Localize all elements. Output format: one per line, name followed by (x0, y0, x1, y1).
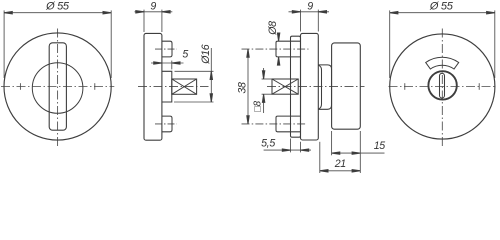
dimension O55 view4 extension left (389, 10, 391, 78)
svg-text:5: 5 (182, 49, 188, 61)
dimension 5 view2 extension right (171, 61, 173, 70)
centerline vertical view4 (441, 29, 443, 147)
spindle crossed box view3 (272, 79, 298, 94)
base plate side view3 (291, 36, 301, 137)
svg-text:9: 9 (150, 0, 156, 12)
dimension 5,5 view3 arrow left (282, 149, 290, 151)
dimension O8 view3 arrow top (277, 33, 279, 41)
dimension O16 view2 extension bottom (174, 101, 214, 103)
knob neck outline view3 (319, 65, 332, 109)
dimension 9 view2 extension right (161, 10, 163, 32)
dimension 5,5 view3 arrow right (301, 149, 309, 151)
dimension 15 view3 extension left (331, 131, 333, 155)
dimension 5,5 view3 extension right (300, 142, 302, 153)
dimension 5,5 view3 line (264, 149, 311, 151)
svg-text:Ø16: Ø16 (200, 44, 212, 65)
indicator arc segment view4 (426, 57, 459, 69)
dimension O16 view2 arrow top (210, 71, 212, 79)
centerline top boss view3 (242, 48, 309, 50)
coin slot view4 (440, 73, 445, 98)
dimension O55 view1 arrow right (103, 12, 111, 14)
spindle cross diagonals view2 (172, 79, 197, 94)
dimension 5 view2 arrow left (154, 62, 162, 64)
dimension O55 view1 extension left (3, 10, 5, 78)
dimension O55 view4 arrow right (487, 12, 495, 14)
dimension sq8 view3 arrow line bottom (263, 94, 265, 113)
centerline vertical view1 (57, 29, 59, 147)
svg-text:15: 15 (374, 140, 386, 152)
dimension O8 view3 arrow bottom (277, 57, 279, 65)
centerline tick right view1 (94, 83, 96, 90)
dimension O55 view4 arrow left (390, 12, 398, 14)
bottom screw tube view3 (276, 116, 301, 132)
knob body view3 (332, 43, 361, 129)
dimension 9 view2 extension left (143, 10, 145, 32)
rosette outer circle O55 view4 (390, 34, 495, 139)
centerline horizontal view4 (389, 86, 497, 88)
dimension 9 view3 extension left (300, 10, 302, 32)
svg-text:5,5: 5,5 (261, 138, 275, 150)
dimension O55 view4 extension right (494, 10, 496, 78)
dimension 15 view3 arrow left (332, 152, 340, 154)
svg-text:9: 9 (307, 0, 313, 12)
dimension 9 view3 arrow left (292, 11, 300, 13)
bottom screw boss view2 (162, 116, 172, 132)
centerline tick left view4 (404, 83, 406, 90)
release cylinder circle view4 (428, 71, 456, 99)
dimension 9 view3 arrow right (318, 11, 326, 13)
dimension O16 view2 arrow bottom (210, 94, 212, 102)
dimension sq8 view3 arrow top (262, 71, 264, 79)
dimension sq8 view3 extension bottom (262, 93, 272, 95)
svg-text:21: 21 (334, 158, 346, 170)
svg-text:□8: □8 (253, 100, 264, 112)
rosette disc side view2 (144, 33, 162, 140)
thumbturn bar view1 (49, 43, 66, 130)
dimension 21 view3 line (320, 170, 361, 172)
dimension O8 view3 leader bottom (278, 57, 280, 66)
dimension 21 view3 arrow left (320, 170, 328, 172)
dimension O55 view1 extension right (110, 10, 112, 78)
dimension 5,5 view3 extension left (290, 139, 292, 153)
dimension 9 view3 line (289, 11, 330, 13)
dimension sq8 view3 extension top (262, 78, 272, 80)
dimension 38 view3 line (247, 49, 249, 124)
dimension O55 view4 line (390, 12, 495, 14)
dimension 15 view3 arrow right (352, 152, 360, 154)
spindle cross diagonals view3 (272, 79, 298, 94)
centerline main view3 (267, 86, 365, 88)
rosette disc side view3 (301, 33, 319, 140)
dimension 21 view3 extension left (319, 142, 321, 173)
centerline top boss view2 (155, 48, 177, 50)
dimension 21 view3 extension right (359, 131, 361, 173)
bushing O16 view2 (162, 71, 172, 102)
top screw boss view2 (162, 41, 172, 57)
dimension 21 view3 arrow right (352, 170, 360, 172)
dimension 5 view2 arrow right (172, 62, 180, 64)
dimension O16 view2 line (210, 48, 212, 102)
dimension sq8 view3 arrow line top (263, 68, 265, 79)
dimension 15 view3 line (332, 152, 385, 154)
dimension 38 view3 arrow top (247, 49, 249, 57)
svg-text:Ø8: Ø8 (267, 21, 279, 36)
dimension sq8 view3 arrow bottom (262, 94, 264, 102)
svg-text:Ø 55: Ø 55 (45, 0, 70, 12)
centerline horizontal view1 (1, 86, 114, 88)
svg-text:38: 38 (237, 82, 249, 94)
dimension 5 view2 line (151, 62, 184, 64)
turn hub circle view1 (32, 63, 83, 114)
centerline main view2 (138, 86, 209, 88)
dimension 9 view2 line (135, 11, 173, 13)
rosette outer circle O55 view1 (4, 33, 111, 140)
dimension O55 view1 line (4, 12, 111, 14)
dimension O16 view2 extension top (175, 70, 214, 72)
centerline tick left view1 (19, 83, 21, 90)
top screw tube view3 (276, 41, 301, 57)
centerline bottom boss view2 (155, 123, 177, 125)
dimension 9 view2 arrow left (136, 11, 144, 13)
spindle crossed box view2 (172, 79, 197, 94)
centerline bottom boss view3 (242, 123, 308, 125)
dimension 38 view3 arrow bottom (247, 116, 249, 124)
centerline tick right view4 (478, 83, 480, 90)
knob neck view3 (319, 65, 322, 109)
dimension 9 view3 extension right (317, 10, 319, 32)
svg-text:Ø 55: Ø 55 (429, 0, 454, 12)
dimension O55 view1 arrow left (4, 12, 12, 14)
dimension O8 view3 leader top (278, 34, 280, 42)
dimension 9 view2 arrow right (162, 11, 170, 13)
